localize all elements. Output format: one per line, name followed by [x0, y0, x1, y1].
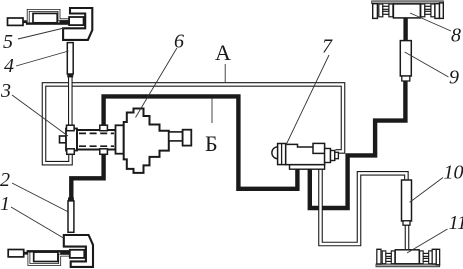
leader line 8: [410, 13, 451, 31]
leader line B: [211, 99, 213, 124]
pipe circuit A: hose 4 drop to master cylinder (double line): [68, 77, 73, 127]
svg-text:7: 7: [322, 36, 333, 58]
svg-text:1: 1: [0, 193, 10, 215]
regulator main body: [286, 144, 325, 164]
leader line 4: [16, 51, 69, 66]
master cylinder 3: piston dashed lines: [79, 132, 114, 134]
svg-text:Б: Б: [205, 131, 218, 156]
hose 10 bottom fitting: [403, 221, 410, 225]
svg-text:9: 9: [449, 67, 459, 89]
svg-text:8: 8: [451, 25, 461, 47]
adapter flange between cylinder and booster: [116, 125, 124, 153]
regulator flange band: [278, 144, 286, 165]
pipe circuit B: master cylinder to regulator (thick): [104, 96, 298, 188]
leader line 10: [410, 178, 443, 203]
booster pushrod: [169, 132, 183, 141]
regulator right fittings: [325, 149, 331, 163]
svg-text:10: 10: [444, 162, 463, 184]
svg-text:3: 3: [0, 80, 11, 102]
leader line A: [224, 64, 226, 82]
regulator top block: [313, 143, 325, 153]
leader line 9: [405, 52, 449, 77]
hose 9: [400, 41, 411, 76]
leader line 2: [12, 183, 68, 212]
hose 9 bottom fitting: [402, 76, 410, 81]
hose 10: [402, 180, 412, 221]
front brake assembly 1 (bottom-left, mirrored): [8, 198, 93, 267]
leader line 11: [407, 229, 448, 253]
master cylinder 3: end cap: [66, 129, 77, 151]
pipe circuit B: rear brake drop to hose 9 (thick): [403, 19, 407, 43]
svg-text:4: 4: [4, 55, 14, 77]
svg-text:11: 11: [449, 212, 463, 234]
master cylinder 3: barrel: [77, 130, 116, 150]
leader line 3: [12, 95, 68, 136]
leader line 6: [136, 48, 177, 118]
svg-text:А: А: [215, 40, 231, 65]
svg-text:2: 2: [0, 169, 10, 191]
leader line 1: [11, 207, 64, 238]
rear drum brake 8 (top-right): [372, 1, 444, 19]
svg-text:6: 6: [174, 31, 184, 53]
pipe circuit B: regulator to rear-right riser (thick): [310, 77, 406, 208]
pushrod end knob: [183, 130, 192, 146]
pipe circuit B: master cylinder to front-bottom hose (thick): [71, 153, 103, 199]
pipe circuit A: loop from bottom-left port round to regulator (double line): [44, 84, 343, 163]
leader line 5: [18, 28, 64, 39]
leader line 7: [286, 55, 329, 145]
regulator left arc cap: [272, 147, 278, 159]
front brake assembly 5 (top-left): [8, 8, 93, 77]
pipe circuit A: hose 10 to rear-bottom brake (double line): [405, 224, 410, 249]
pipe circuit A: regulator to hose 10 (double line): [321, 167, 407, 244]
master cylinder 3: left nub: [60, 136, 67, 143]
rear drum brake 11 (bottom-right, mirrored): [376, 249, 440, 267]
master cylinder port fittings: [67, 125, 75, 131]
pressure regulator 7: base flange: [290, 165, 325, 170]
vacuum booster 6 body: [124, 109, 169, 173]
svg-text:5: 5: [3, 31, 13, 53]
